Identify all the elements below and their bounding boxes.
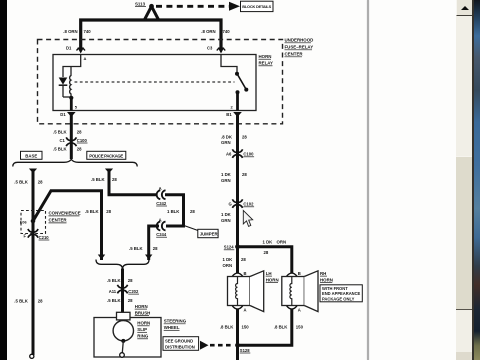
svg-text:5: 5 <box>75 105 78 110</box>
node S113 junction dot <box>149 4 154 9</box>
wire branch to RH horn <box>238 247 292 273</box>
options brace split <box>13 159 137 166</box>
horn brush block <box>117 312 131 320</box>
svg-text:WHEEL: WHEEL <box>164 325 180 330</box>
svg-text:28: 28 <box>190 209 195 214</box>
svg-text:2: 2 <box>231 105 234 110</box>
svg-text:A6: A6 <box>226 152 232 157</box>
svg-text:.8 ORN: .8 ORN <box>63 29 77 34</box>
wire merged horn switch feed <box>121 269 124 314</box>
label 1 DK ORN 28 branch <box>263 240 287 255</box>
horn slip ring circle <box>113 321 133 341</box>
svg-text:.8 DK: .8 DK <box>221 134 233 139</box>
svg-text:RING: RING <box>137 334 149 339</box>
svg-text:RELAY: RELAY <box>259 61 274 66</box>
svg-text:B1: B1 <box>226 112 232 117</box>
wire convenience branch diagonal <box>33 191 102 260</box>
scrollbar bottom button hint <box>456 352 473 360</box>
label LH HORN <box>266 271 279 283</box>
relay switch blade <box>238 75 247 91</box>
label .8 ORN 740 left <box>63 29 91 34</box>
svg-text:STEERING: STEERING <box>164 319 187 324</box>
svg-text:.5 BLK: .5 BLK <box>14 298 29 303</box>
arrowhead to block details <box>229 2 240 11</box>
label 1 DK GRN <box>221 212 232 223</box>
label .8 ORN 740 right <box>201 29 230 34</box>
svg-text:HORN: HORN <box>137 321 150 326</box>
connector flare right of merge <box>145 255 152 260</box>
svg-text:28: 28 <box>242 134 247 139</box>
connector C202 inline <box>109 285 139 294</box>
svg-text:ORN: ORN <box>277 240 287 245</box>
svg-text:.5 BLK: .5 BLK <box>85 209 100 214</box>
svg-text:POLICE PACKAGE: POLICE PACKAGE <box>89 153 123 158</box>
scrollbar track <box>456 0 474 360</box>
LH horn body <box>228 271 264 312</box>
svg-text:A: A <box>244 308 247 313</box>
svg-text:D1: D1 <box>66 46 72 51</box>
underhood fuse-relay center dashed box <box>38 40 283 124</box>
label .5 BLK 28 <box>53 146 82 151</box>
connector arrow base wire <box>29 169 37 174</box>
label HORN SLIP RING <box>137 321 150 339</box>
relay internal dashed actuator line <box>75 81 235 83</box>
wire RH horn ground <box>239 309 292 346</box>
wire dashed to S128 <box>210 344 234 347</box>
svg-text:HORN: HORN <box>266 277 279 282</box>
svg-text:CENTER: CENTER <box>285 52 304 57</box>
svg-text:A: A <box>298 308 301 313</box>
convenience center dashed box <box>21 211 46 234</box>
scrollbar thumb <box>456 156 473 310</box>
wire BASE drop <box>32 171 35 355</box>
label 1 DK ORN 28 left <box>223 257 247 268</box>
wire brush to contact <box>122 341 123 353</box>
wire switch to pin 2 <box>236 92 239 110</box>
label UNDERHOOD FUSE-RELAY CENTER <box>285 38 314 57</box>
svg-text:GRN: GRN <box>221 218 231 223</box>
connector C3 arrow into relay <box>207 46 225 54</box>
svg-text:DISTRIBUTION: DISTRIBUTION <box>165 344 195 349</box>
wire S113 left leg <box>145 6 152 19</box>
svg-text:FUSE–RELAY: FUSE–RELAY <box>285 45 314 50</box>
box BASE <box>21 151 43 159</box>
svg-text:.5 BLK: .5 BLK <box>107 298 122 303</box>
svg-text:C100: C100 <box>77 138 88 143</box>
svg-text:.8 BLK: .8 BLK <box>220 324 235 329</box>
box JUMPER with pointer <box>184 226 219 238</box>
box POLICE PACKAGE <box>87 151 126 159</box>
svg-text:A11: A11 <box>109 289 117 294</box>
svg-text:.8 ORN: .8 ORN <box>201 29 215 34</box>
svg-text:.5 BLK: .5 BLK <box>129 246 144 251</box>
svg-text:SEE GROUND: SEE GROUND <box>165 339 193 344</box>
svg-text:1 DK: 1 DK <box>221 212 232 217</box>
svg-text:C210: C210 <box>39 235 50 240</box>
svg-text:F: F <box>24 233 27 238</box>
steering wheel box <box>94 318 161 358</box>
wire C244 down to brace <box>149 226 159 260</box>
svg-text:S113: S113 <box>135 1 146 6</box>
wire S113 right leg <box>152 6 159 19</box>
horn switch contact circle <box>120 353 125 358</box>
svg-text:28: 28 <box>38 180 43 185</box>
svg-text:HORN: HORN <box>259 54 272 59</box>
wire C242 to C244 jumper loop <box>165 195 184 226</box>
svg-text:150: 150 <box>242 324 250 329</box>
connector D1 arrow into relay <box>66 46 85 54</box>
label .5 BLK 28 <box>85 209 112 214</box>
mouse cursor <box>243 210 252 226</box>
label .5 BLK 28 <box>14 298 43 303</box>
svg-text:.5 BLK: .5 BLK <box>107 278 122 283</box>
connector arrow police wire <box>105 169 113 174</box>
label 1 DK GRN 28 <box>221 172 247 183</box>
label .8 BLK 150 RH <box>274 324 304 329</box>
svg-text:.5 BLK: .5 BLK <box>53 129 68 134</box>
wire LH horn ground <box>236 309 239 360</box>
svg-text:C202: C202 <box>128 289 139 294</box>
connector G C102 inline <box>229 199 255 208</box>
svg-text:CONVENIENCE: CONVENIENCE <box>49 211 81 216</box>
content/page divider line <box>367 0 369 360</box>
box SEE GROUND DISTRIBUTION <box>163 337 199 351</box>
svg-text:740: 740 <box>223 29 231 34</box>
svg-text:28: 28 <box>153 246 158 251</box>
svg-text:28: 28 <box>264 250 269 255</box>
splice S113 label <box>135 1 146 6</box>
svg-text:1 BLK: 1 BLK <box>167 209 180 214</box>
connector C1 C100 inline <box>60 137 88 146</box>
label .8 DK GRN 28 <box>221 134 247 145</box>
svg-text:C1: C1 <box>60 138 66 143</box>
svg-text:C244: C244 <box>156 232 167 237</box>
wire POLICE drop to C242 <box>109 171 157 195</box>
svg-text:.5 BLK: .5 BLK <box>91 177 106 182</box>
svg-text:D1: D1 <box>60 112 66 117</box>
wire dashed to fuse block details <box>156 5 229 8</box>
wire horn feed from relay B1 <box>236 115 239 273</box>
svg-text:C242: C242 <box>156 201 167 206</box>
RH horn body <box>282 271 318 312</box>
base wire bottom end <box>30 354 34 358</box>
wire top feed bus <box>81 20 221 47</box>
svg-text:S128: S128 <box>240 348 250 353</box>
svg-text:HORN: HORN <box>135 304 148 309</box>
wire coil bottom to pin 5 <box>70 98 73 111</box>
scrollbar up button <box>456 0 475 16</box>
label RH HORN <box>320 271 333 283</box>
node S128 splice <box>235 343 250 353</box>
window edge dark line <box>472 0 474 360</box>
node coil bottom junction <box>69 96 73 100</box>
svg-text:1 DK: 1 DK <box>223 257 234 262</box>
svg-text:.5 BLK: .5 BLK <box>14 180 29 185</box>
svg-text:28: 28 <box>38 298 43 303</box>
svg-text:C100: C100 <box>243 152 254 157</box>
svg-text:28: 28 <box>128 298 133 303</box>
label HORN BRUSH <box>135 304 151 316</box>
merge brace join <box>96 260 149 270</box>
svg-text:BRUSH: BRUSH <box>135 310 151 315</box>
node switch blade end <box>244 88 248 92</box>
svg-text:CENTER: CENTER <box>49 218 68 223</box>
node convenience center junction <box>31 219 36 224</box>
wire relay pin C3 to switch <box>221 55 237 73</box>
ground distribution arrow <box>200 341 209 350</box>
label .5 BLK 28 <box>53 129 82 134</box>
horn relay box U1 <box>53 55 256 111</box>
svg-text:.5 BLK: .5 BLK <box>53 146 68 151</box>
svg-text:ORN: ORN <box>223 263 233 268</box>
label CONVENIENCE CENTER <box>49 211 81 223</box>
svg-text:740: 740 <box>84 29 92 34</box>
svg-text:UNDERHOOD: UNDERHOOD <box>285 38 314 43</box>
node switch upper contact <box>235 72 239 76</box>
label .5 BLK 28 <box>14 180 43 185</box>
connector flare left of merge <box>98 255 105 260</box>
svg-text:1 DK: 1 DK <box>263 240 274 245</box>
svg-text:28: 28 <box>242 172 247 177</box>
svg-text:S124: S124 <box>224 245 234 250</box>
svg-text:PACKAGE ONLY: PACKAGE ONLY <box>322 296 355 301</box>
connector A6 C100 inline <box>226 149 254 158</box>
svg-text:GRN: GRN <box>221 178 231 183</box>
left black bar <box>0 0 7 360</box>
connector C244 inline <box>156 217 167 237</box>
connector B RH horn <box>287 271 301 276</box>
svg-text:GRN: GRN <box>221 140 231 145</box>
label 1 BLK 28 <box>167 209 195 214</box>
node S124 splice <box>224 244 240 250</box>
svg-text:BASE: BASE <box>25 153 37 158</box>
node slip ring contact dot <box>121 339 125 343</box>
box BLOCK DETAILS <box>241 1 274 11</box>
label HORN RELAY <box>259 54 274 66</box>
connector D1 exit arrow below relay <box>60 112 75 117</box>
svg-text:28: 28 <box>112 177 117 182</box>
svg-text:LH: LH <box>266 271 272 276</box>
box WITH FRONT END APPEARANCE PACKAGE ONLY <box>320 285 362 302</box>
svg-text:E06: E06 <box>20 220 27 224</box>
svg-text:RH: RH <box>320 271 326 276</box>
svg-text:SLIP: SLIP <box>137 327 147 332</box>
svg-text:JUMPER: JUMPER <box>200 232 219 237</box>
label .5 BLK 28 <box>129 246 158 251</box>
svg-text:28: 28 <box>241 257 246 262</box>
svg-text:C102: C102 <box>243 202 254 207</box>
svg-text:B: B <box>298 271 301 276</box>
connector C210 inline <box>24 229 50 240</box>
label .5 BLK 28 <box>107 298 133 303</box>
connector A RH horn <box>287 306 301 313</box>
wire relay pin A to coil top <box>63 55 81 78</box>
diode CR in relay <box>59 78 68 98</box>
label STEERING WHEEL <box>164 319 187 331</box>
svg-text:C3: C3 <box>207 46 213 51</box>
relay coil winding <box>63 67 71 98</box>
svg-text:28: 28 <box>77 146 82 151</box>
scrollbar up arrow glyph <box>461 6 469 10</box>
connector C242 inline <box>156 186 167 206</box>
connector A LH horn <box>232 306 246 313</box>
node switch lower contact <box>236 90 240 94</box>
svg-text:28: 28 <box>128 278 133 283</box>
label .8 BLK 150 LH <box>220 324 249 329</box>
connector B LH horn <box>232 271 246 276</box>
svg-text:150: 150 <box>296 324 304 329</box>
svg-text:HORN: HORN <box>320 277 333 282</box>
svg-text:B: B <box>244 271 247 276</box>
label .5 BLK 28 police <box>91 177 117 182</box>
video strip behind window (right edge) <box>473 0 480 360</box>
label .5 BLK 28 <box>107 278 133 283</box>
wire relay pin5 down to brace <box>70 115 73 159</box>
svg-text:28: 28 <box>77 129 82 134</box>
svg-text:.8 BLK: .8 BLK <box>274 324 289 329</box>
svg-text:1 DK: 1 DK <box>221 172 232 177</box>
svg-text:28: 28 <box>106 209 111 214</box>
svg-text:G: G <box>229 202 232 207</box>
svg-text:A: A <box>84 56 87 61</box>
svg-text:BLOCK DETAILS: BLOCK DETAILS <box>242 4 271 9</box>
connector B1 exit arrow below relay <box>226 112 242 117</box>
